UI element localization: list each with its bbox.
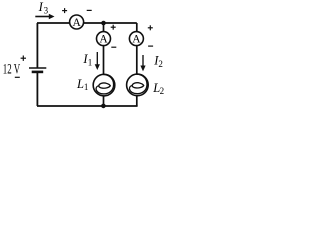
svg-text:1: 1 [84,82,89,92]
current arrow I3 [35,14,54,20]
svg-text:3: 3 [44,6,49,16]
svg-text:1: 1 [88,57,93,67]
node junction top (dot) [101,21,106,26]
lamp L1 [93,74,115,96]
current label I3 [38,0,49,16]
lamp label L2 [152,81,164,96]
ammeter A2 plus sign [148,25,153,30]
svg-text:A: A [99,34,108,46]
wire left lower [36,72,38,106]
current arrow I2 [140,55,145,71]
battery B1 short plate [32,71,44,74]
battery plus sign [21,56,26,61]
lamp label L1 [76,77,88,92]
wire bottom [37,105,138,107]
svg-text:2: 2 [158,59,163,69]
svg-text:L: L [76,77,84,91]
svg-text:A: A [72,17,81,29]
ammeter A3 (top) [70,15,84,29]
ammeter A2 minus sign [148,45,153,47]
node junction bottom (dot) [101,104,106,109]
lamp L2 [127,74,149,96]
ammeter A3 plus sign [62,8,67,13]
current arrow I1 [95,52,100,70]
ammeter A1 [97,32,111,46]
wire top [37,22,137,24]
wire branch 1 [103,23,105,106]
battery minus sign [15,76,20,78]
svg-text:12 V: 12 V [3,62,21,78]
current label I1 [82,52,92,68]
battery B1 12V long plate [29,67,46,69]
ammeter A1 minus sign [111,46,116,48]
svg-text:A: A [132,34,141,46]
wire left upper [36,23,38,68]
wire branch 2 right side [136,23,138,106]
ammeter A2 [129,32,143,46]
svg-text:2: 2 [160,86,165,96]
current label I2 [153,54,163,70]
ammeter A1 plus sign [111,25,116,30]
ammeter A3 minus sign [87,9,92,11]
